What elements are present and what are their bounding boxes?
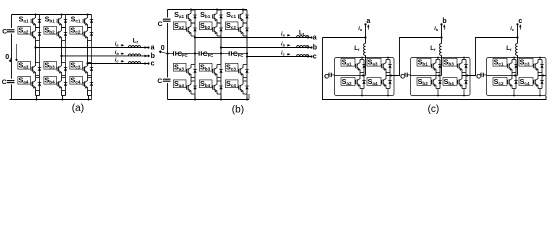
svg-text:ib: ib: [115, 50, 120, 56]
wire: (a) leg 1 igbt to bottom bar: [35, 91, 37, 96]
terminal c of (a): [147, 62, 149, 64]
wire: neutral stub vertical of (a): [16, 44, 18, 59]
svg-text:ia: ia: [115, 42, 119, 48]
inductor Lf on (b) line a: [297, 36, 309, 38]
junction: (b) leg 1 bottom rail: [194, 99, 196, 101]
wire: module 1 output bar to phase a: [364, 75, 366, 77]
wire: (c) module 3 cap to left leg: [487, 75, 513, 77]
svg-text:C: C: [476, 73, 481, 80]
wire: (c) phase b riser: [441, 24, 443, 43]
wire: (b) leg 2 to bottom rail: [220, 94, 222, 100]
stub: module 2 left leg to top bus: [437, 58, 439, 60]
svg-text:b: b: [151, 53, 155, 60]
wire: (a) leg 3 diode-side midsection: [91, 41, 93, 63]
transistor cell Sa3 of (b): [173, 63, 196, 77]
junction: (a) leg 1 bottom rail: [36, 99, 38, 101]
wire: (a) leg 1 between lower cells: [35, 76, 37, 78]
transistor cell Sc2 of (a): [70, 26, 93, 40]
transistor cell Sc4 of (c): [519, 76, 544, 89]
terminal a of (a): [147, 46, 149, 48]
wire: (a) leg 1 to bottom rail: [36, 96, 38, 100]
stub: module 3 left leg to top bus: [513, 58, 515, 60]
svg-text:C: C: [157, 78, 162, 85]
transistor cell Sb4 of (b): [199, 80, 222, 94]
wire: (c) phase c into module 3: [517, 55, 519, 75]
wire: (a) leg 2 diode to bottom bar: [65, 91, 67, 96]
svg-text:C: C: [324, 73, 329, 80]
wire: (b) leg 2 midsection: [220, 36, 222, 65]
svg-text:Lf: Lf: [506, 46, 512, 52]
transistor cell Sa2 of (b): [173, 22, 196, 36]
wire: module 1 output link: [386, 38, 442, 76]
transistor cell Sb4 of (a): [44, 76, 67, 90]
svg-text:(a): (a): [72, 103, 84, 114]
svg-text:Lf: Lf: [430, 46, 436, 52]
wire: (a) output line b: [62, 55, 149, 57]
wire: (c) phase a into module 1: [365, 55, 367, 75]
transistor cell Sb1 of (b): [213, 10, 223, 23]
transistor cell Sa1 of (a): [31, 15, 41, 28]
wire: (a) leg 3 bottom bar: [88, 95, 92, 97]
wire: module 3 output bar to phase c: [516, 75, 518, 77]
wire: (b) leg 3 midsection: [246, 36, 248, 65]
wire: module 2 output bar to phase b: [440, 75, 442, 77]
junction: (b) leg 3 top rail: [242, 9, 244, 11]
junction: phase c and link wire: [516, 36, 518, 38]
stub: module 1 right leg to top bus: [387, 58, 389, 60]
junction: (b) leg 2 top rail: [216, 9, 218, 11]
junction: (b) leg 2 output tap: [220, 46, 222, 48]
svg-text:C: C: [400, 73, 405, 80]
junction: phase a and return loop: [364, 36, 366, 38]
svg-text:Lf: Lf: [354, 46, 360, 52]
inductor Lf on (b) line c: [297, 55, 309, 57]
junction: (b) 0 on rail: [166, 52, 168, 54]
wire: (b) output line c: [247, 56, 312, 58]
junction: (a) leg 3 bottom rail: [88, 99, 90, 101]
svg-text:a: a: [366, 18, 370, 25]
junction: (b) leg 3 output tap: [246, 55, 248, 57]
transistor cell Sc4 of (a): [70, 76, 93, 90]
wire: (a) leg 2 emitter to output line: [61, 41, 63, 56]
transistor cell Sa4 of (b): [173, 80, 196, 94]
stub: module 3 left leg to bottom bus: [513, 89, 515, 96]
transistor cell Sc3 of (b): [225, 63, 248, 77]
module box 3 of (c): [487, 58, 547, 96]
svg-text:b: b: [442, 18, 446, 25]
wire: (c) outer return loop: [323, 38, 547, 100]
flying capacitor CFC 3 of (b): [221, 53, 229, 55]
wire: (a) leg 3 emitter to output line: [87, 41, 89, 64]
wire: (a) output line c: [88, 63, 149, 65]
svg-text:ib: ib: [434, 26, 439, 32]
transistor cell Sb4 of (c): [443, 76, 468, 89]
svg-text:C: C: [2, 28, 7, 35]
capacitor C (lower dc-link) of (b): [163, 77, 171, 83]
wire: (a) leg 3 diode to bottom bar: [91, 91, 93, 96]
stub: module 1 left leg to top bus: [361, 58, 363, 60]
inductor Lf on (b) line b: [297, 46, 309, 48]
terminal b of (a): [147, 55, 149, 57]
wire: (a) left dc rail: [11, 15, 13, 100]
transistor cell Sc4 of (b): [225, 80, 248, 94]
junction: (b) leg 1 top rail: [190, 9, 192, 11]
svg-text:(c): (c): [428, 104, 440, 115]
transistor cell Sa2 of (c): [341, 76, 366, 89]
wire: (b) bottom rail end turn: [248, 94, 250, 100]
terminal a of (b): [310, 36, 312, 38]
wire: module 3 right leg midpoint: [537, 73, 539, 76]
junction: (a) leg 1 top rail: [35, 14, 37, 16]
stub: module 1 right leg to bottom bus: [387, 89, 389, 96]
wire: module 1 left leg midpoint: [359, 73, 361, 76]
svg-text:CFC: CFC: [177, 51, 188, 58]
svg-text:ib: ib: [281, 42, 286, 48]
junction: (b) leg 1 cap tap: [194, 52, 196, 54]
junction: (a) leg 2 output tap: [60, 55, 62, 57]
svg-text:Lf: Lf: [299, 31, 305, 37]
stub: module 3 right leg to top bus: [539, 58, 541, 60]
wire: (a) leg 1 down to lower cells: [35, 48, 37, 63]
junction: (a) leg 2 top rail: [61, 14, 63, 16]
capacitor C (lower dc-link) of (a): [7, 79, 16, 85]
stub: module 2 right leg to top bus: [463, 58, 465, 60]
wire: (b) left rail: [167, 10, 169, 100]
node 0 connector diamond of (a): [9, 59, 12, 62]
transistor cell Sc3 of (a): [70, 61, 93, 75]
wire: (a) leg 2 between lower cells: [61, 76, 63, 78]
transistor cell Sa2 of (a): [18, 26, 41, 40]
wire: (a) leg 3 to bottom rail: [88, 96, 90, 100]
wire: module 2 right leg midpoint: [461, 73, 463, 76]
transistor cell Sa3 of (a): [18, 61, 41, 75]
wire: (a) leg 3 igbt to bottom bar: [87, 91, 89, 96]
wire: (b) leg 1 to bottom rail: [194, 94, 196, 100]
transistor cell Sb1 of (c): [417, 58, 442, 72]
wire: (a) leg 2 bottom bar: [62, 95, 66, 97]
wire: (b) output line a: [195, 37, 312, 39]
transistor cell Sc1 of (a): [83, 15, 93, 28]
flying capacitor CFC 2 of (b): [195, 53, 199, 55]
svg-text:0: 0: [5, 54, 9, 61]
wire: (a) leg 3 between lower cells: [87, 76, 89, 78]
junction: (a) leg 1 output tap: [34, 46, 36, 48]
transistor cell Sb3 of (a): [44, 61, 67, 75]
wire: (a) leg 3 down to lower cells: [87, 63, 89, 64]
transistor cell Sc1 of (c): [493, 58, 518, 72]
wire: module 2 left leg midpoint: [435, 73, 437, 76]
wire: module 1 right leg midpoint: [385, 73, 387, 76]
inductor Lf on (a) line c: [128, 62, 140, 64]
inductor Lf on (a) line a: [128, 46, 140, 48]
junction: (a) leg 2 bottom rail: [62, 99, 64, 101]
wire: (b) leg 1 between lower cells: [190, 78, 192, 82]
junction: (a) leg 3 top rail: [87, 14, 89, 16]
junction: (b) leg 2 bottom rail: [220, 99, 222, 101]
transistor cell Sb3 of (c): [443, 58, 468, 72]
wire: module 2 output link: [462, 38, 518, 76]
wire: (b) bottom rail: [168, 99, 250, 101]
wire: (c) module 1 cap to left leg: [335, 75, 361, 77]
wire: (a) top dc rail: [12, 14, 92, 16]
svg-text:C: C: [158, 21, 163, 28]
wire: (a) bottom dc rail: [10, 99, 92, 101]
flying capacitor CFC 1 of (b): [168, 53, 174, 55]
terminal c of (b): [310, 55, 312, 57]
junction: phase b and link wire: [440, 36, 442, 38]
wire: (a) leg 2 diode-side midsection: [65, 41, 67, 63]
wire: (b) top rail: [168, 9, 248, 11]
wire: (c) phase a riser: [365, 24, 367, 43]
transistor cell Sb2 of (b): [199, 22, 222, 36]
svg-text:ia: ia: [281, 32, 285, 38]
transistor cell Sb1 of (a): [57, 15, 67, 28]
svg-text:c: c: [518, 18, 522, 25]
svg-text:ia: ia: [358, 26, 362, 32]
connector diamond on neutral stub of (a): [15, 59, 18, 62]
svg-text:c: c: [313, 54, 317, 61]
svg-text:(b): (b): [232, 104, 244, 115]
wire: module 3 left leg midpoint: [511, 73, 513, 76]
junction: (a) leg 3 output tap: [86, 62, 88, 64]
wire: (a) output line a: [36, 47, 149, 49]
junction: (b) leg 3 bottom rail: [246, 99, 248, 101]
transistor cell Sa4 of (c): [367, 76, 392, 89]
wire: (b) leg 3 to bottom rail: [246, 94, 248, 100]
wire: (c) module 2 cap to left leg: [411, 75, 437, 77]
transistor cell Sa3 of (c): [367, 58, 392, 72]
wire: (a) bottom rail end turn: [91, 96, 93, 100]
wire: module 3 output link: [538, 75, 546, 77]
wire: 0 stub of (a): [10, 57, 11, 59]
junction: (b) leg 3 cap tap: [246, 52, 248, 54]
transistor cell Sb3 of (b): [199, 63, 222, 77]
inductor Lf on (a) line b: [128, 54, 140, 56]
wire: (b) leg 2 between lower cells: [216, 78, 218, 82]
module box 2 of (c): [411, 58, 471, 96]
node 0 connector diamond of (b): [159, 50, 162, 53]
stub: module 2 right leg to bottom bus: [463, 89, 465, 96]
transistor cell Sc2 of (b): [225, 22, 248, 36]
svg-text:0: 0: [161, 45, 165, 52]
svg-text:a: a: [313, 35, 317, 42]
wire: (b) leg 3 between lower cells: [242, 78, 244, 82]
stub: module 1 left leg to bottom bus: [361, 89, 363, 96]
transistor cell Sc1 of (b): [239, 10, 249, 23]
transistor cell Sb2 of (c): [417, 76, 442, 89]
svg-text:CFC: CFC: [203, 51, 214, 58]
transistor cell Sa4 of (a): [18, 76, 41, 90]
capacitor C (upper dc-link) of (b): [163, 17, 171, 23]
wire: (b) 0 stub: [162, 52, 168, 53]
transistor cell Sa1 of (b): [187, 10, 197, 23]
transistor cell Sb2 of (a): [44, 26, 67, 40]
junction: (b) leg 1 output tap: [194, 36, 196, 38]
svg-text:CFC: CFC: [233, 51, 244, 58]
stub: module 3 right leg to bottom bus: [539, 89, 541, 96]
transistor cell Sc3 of (c): [519, 58, 544, 72]
wire: (b) output line b: [221, 47, 312, 49]
wire: (c) phase c riser: [517, 24, 519, 43]
capacitor C (upper dc-link) of (a): [7, 28, 16, 34]
junction: (b) leg 2 cap tap: [220, 52, 222, 54]
wire: (c) return loop to phase a: [323, 37, 366, 39]
stub: module 2 left leg to bottom bus: [437, 89, 439, 96]
wire: (a) leg 2 igbt to bottom bar: [61, 91, 63, 96]
wire: (a) leg 2 to bottom rail: [62, 96, 64, 100]
transistor cell Sa1 of (c): [341, 58, 366, 72]
terminal b of (b): [310, 46, 312, 48]
wire: (c) phase b into module 2: [441, 55, 443, 75]
svg-text:b: b: [313, 45, 317, 52]
wire: (a) leg 1 diode-side midsection: [39, 41, 41, 63]
svg-text:Lf: Lf: [133, 38, 139, 44]
wire: (a) leg 2 down to lower cells: [61, 56, 63, 63]
module box 1 of (c): [335, 58, 395, 96]
wire: (a) leg 1 emitter to output line: [35, 41, 37, 48]
wire: (b) leg 1 midsection: [194, 36, 196, 65]
transistor cell Sc2 of (c): [493, 76, 518, 89]
svg-text:c: c: [151, 61, 155, 68]
wire: (a) leg 1 bottom bar: [36, 95, 40, 97]
wire: (a) leg 1 diode to bottom bar: [39, 91, 41, 96]
svg-text:a: a: [151, 45, 155, 52]
svg-text:C: C: [2, 79, 7, 86]
